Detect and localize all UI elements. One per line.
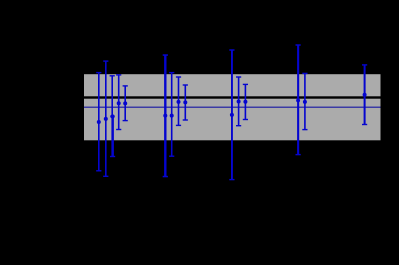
error bar group 2 point 1 (thick) [163, 54, 168, 177]
error bar group 2 point 2 [169, 72, 174, 157]
error bar group 1 point 4 [116, 74, 121, 130]
reference line (black) [84, 96, 381, 98]
average band (gray 1-sigma band) [84, 74, 381, 140]
error bar group 1 point 3 (overlapping pair) [110, 75, 116, 157]
error bar group 3 point 1 (tall) [229, 49, 234, 180]
error bar group 2 point 4 [183, 84, 188, 120]
error bar group 4 point 1 (tall, thick) [296, 44, 301, 155]
error bar group 1 point 2 [103, 60, 108, 177]
error bar group 1 point 1 [96, 72, 101, 172]
error bar group 3 point 2 [236, 76, 241, 126]
error bar group 1 point 5 [123, 85, 128, 121]
error bar group 2 point 3 [176, 76, 181, 126]
average line (blue) [84, 107, 381, 109]
error bar group 4 point 2 [302, 73, 307, 131]
error bar group 5 single point [362, 64, 367, 125]
error bar group 3 point 3 [243, 84, 248, 121]
